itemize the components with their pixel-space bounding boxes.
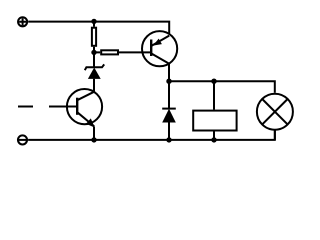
junction dot relay bottom bbox=[211, 137, 216, 142]
junction dot Q1 emitter on rail bbox=[91, 137, 96, 142]
emitter arrowhead (points to base) bbox=[153, 39, 162, 46]
relay coil K1 bbox=[193, 81, 236, 140]
base bar bbox=[150, 40, 152, 57]
emitter diagonal bbox=[77, 112, 94, 126]
resistor R2 (horizontal) bbox=[94, 50, 151, 54]
collector lead bbox=[168, 63, 170, 81]
junction dot top of R1 bbox=[91, 19, 96, 24]
junction dot D1 bottom bbox=[166, 137, 171, 142]
dashed input wire to Q1 base bbox=[18, 106, 33, 108]
terminal + bbox=[18, 17, 27, 26]
base lead solid part bbox=[49, 106, 77, 108]
terminal - bbox=[18, 135, 27, 144]
emitter lead bbox=[93, 127, 95, 140]
base bar bbox=[76, 98, 78, 115]
zener diode D2 bbox=[85, 52, 104, 91]
wire top rail from + to Q2 emitter corner bbox=[28, 22, 169, 35]
transistor Q2 (PNP, top right) bbox=[142, 31, 177, 81]
lamp bbox=[257, 94, 293, 140]
emitter arrowhead (points away from base) bbox=[86, 118, 95, 127]
node A junction dot bbox=[91, 50, 96, 55]
junction dot relay top bbox=[211, 79, 216, 84]
collector diagonal bbox=[77, 92, 94, 100]
transistor Q1 (NPN, bottom left) bbox=[49, 89, 102, 140]
node B junction dot bbox=[166, 79, 171, 84]
resistor R1 (vertical) bbox=[92, 22, 96, 53]
wire bottom rail from - to lamp bottom bbox=[28, 130, 275, 140]
wire node B to lamp top bbox=[169, 81, 275, 93]
emitter diagonal bbox=[151, 36, 169, 46]
diode D1 (flyback) bbox=[162, 81, 176, 140]
collector diagonal bbox=[151, 53, 169, 63]
